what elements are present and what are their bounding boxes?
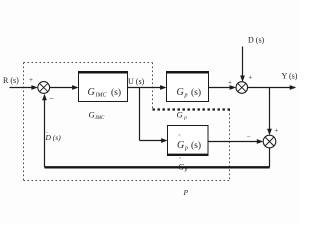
svg-text:+: + [274, 127, 278, 135]
svg-text:R (s): R (s) [3, 76, 19, 85]
svg-text:U (s): U (s) [128, 77, 145, 86]
svg-text:–: – [49, 94, 55, 103]
svg-text:Y (s): Y (s) [282, 72, 298, 81]
svg-text:D (s): D (s) [248, 36, 265, 45]
svg-text:(s): (s) [191, 140, 201, 151]
svg-text:P: P [183, 188, 189, 197]
svg-text:+: + [29, 76, 33, 84]
svg-text:G: G [88, 87, 95, 98]
svg-text:p: p [183, 116, 187, 121]
svg-text:(s): (s) [191, 87, 201, 98]
svg-text:ˆ: ˆ [179, 158, 181, 164]
svg-text:+: + [249, 74, 253, 82]
svg-text:G: G [89, 110, 95, 120]
svg-text:p: p [184, 93, 188, 99]
svg-text:ˆ: ˆ [179, 135, 181, 141]
svg-text:IMC: IMC [95, 93, 108, 99]
svg-text:p: p [184, 146, 188, 152]
svg-text:–: – [246, 133, 251, 140]
svg-text:G: G [177, 87, 184, 98]
svg-text:+: + [228, 79, 232, 87]
svg-text:(s): (s) [111, 87, 121, 98]
svg-text:G: G [177, 140, 184, 151]
svg-text:IMC: IMC [94, 116, 105, 121]
svg-text:p: p [184, 168, 188, 173]
svg-text:G: G [177, 110, 183, 120]
